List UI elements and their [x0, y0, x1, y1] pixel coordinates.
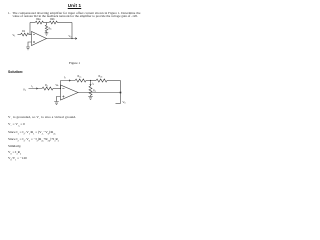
wire R3 to ground [90, 95, 92, 96]
ground below Rc [45, 32, 49, 36]
V+ wire to ground [28, 42, 32, 47]
rail right segment [107, 80, 121, 82]
svg-text:R2b: R2b [99, 75, 103, 78]
op-amp minus [62, 88, 64, 90]
output junction dot [120, 92, 122, 94]
resistor R3 (vertical zigzag) [89, 86, 92, 95]
resistor R2b (fig1 top-right, zigzag) [49, 21, 57, 24]
resistor R1 (solution input, zigzag) [42, 87, 53, 90]
svg-text:I1: I1 [32, 85, 34, 88]
svg-text:I3: I3 [92, 83, 94, 86]
title Unit 1 [0, 3, 149, 8]
solution text line 4 [8, 137, 59, 143]
svg-text:R2a: R2a [78, 75, 82, 78]
output junction dot [71, 38, 72, 39]
node VA junction dot [60, 88, 61, 89]
op-amp U2 triangle [61, 85, 79, 100]
ground below R3 [88, 97, 93, 100]
wire rail right segment to corner [57, 22, 72, 24]
V+ wire down to ground [57, 97, 61, 102]
svg-text:VA: VA [56, 84, 60, 87]
wire top rail left segment [30, 22, 35, 24]
solution text line 7 [8, 156, 27, 162]
I3 arrow on branch [90, 84, 91, 85]
svg-text:V0: V0 [123, 100, 127, 105]
feedback drop wire [71, 23, 73, 39]
top rail with I2 arrow [61, 80, 76, 82]
resistor R2a (solution rail, zigzag) [75, 79, 86, 82]
junction node between R2a,R2b [46, 23, 48, 26]
resistor R2b (solution rail right, zigzag) [96, 79, 107, 82]
solution text line 3 [8, 130, 56, 136]
solution heading [8, 70, 23, 74]
svg-text:I2: I2 [64, 76, 66, 79]
paragraph line 2 [13, 14, 138, 18]
output wire with arrow [47, 38, 78, 40]
op-amp minus sign [33, 34, 35, 36]
solution text line 6 [8, 150, 21, 156]
wire R1 to V- node [53, 88, 61, 90]
svg-text:R1: R1 [45, 84, 48, 87]
feedback drop right [120, 81, 122, 93]
wire R1 to op-amp [29, 34, 32, 36]
node A riser (V- to top rail) [29, 23, 31, 35]
svg-text:V1: V1 [23, 87, 27, 92]
solution circuit [0, 0, 149, 198]
input wire with I1 arrow [29, 88, 43, 90]
branch wire from node B down [90, 81, 92, 87]
riser V- to top rail [60, 81, 62, 89]
figure caption [0, 61, 149, 65]
solution text line 5 [8, 144, 21, 148]
resistor Rc (fig1 vertical, zigzag) [45, 25, 47, 32]
op-amp U1 triangle [32, 32, 47, 46]
ground below V+ [54, 102, 59, 105]
ground fig1 (below op-amp plus) [26, 47, 30, 50]
output drop below junction [120, 93, 122, 104]
resistor R1 (fig1 input, zigzag) [21, 33, 29, 36]
input wire [18, 34, 21, 36]
wire rail mid [43, 22, 49, 24]
solution text line 1 [8, 115, 76, 121]
paragraph line 1 [8, 11, 140, 15]
junction node B dot [90, 80, 91, 81]
op-amp plus sign [33, 41, 35, 43]
output wire [78, 92, 121, 94]
solution text line 2 [8, 122, 25, 128]
figure 1 circuit [0, 0, 149, 198]
op-amp plus [62, 95, 64, 97]
output foot stub [116, 103, 121, 105]
resistor R2a (fig1 top-left, zigzag) [35, 21, 43, 24]
rail mid wire and junction [86, 80, 96, 82]
